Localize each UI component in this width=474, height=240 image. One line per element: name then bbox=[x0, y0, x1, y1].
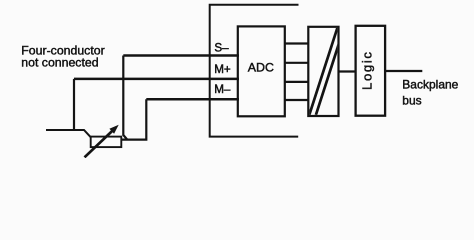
svg-text:ADC: ADC bbox=[248, 60, 274, 74]
svg-text:Logic: Logic bbox=[359, 50, 374, 90]
svg-text:M–: M– bbox=[214, 83, 231, 96]
svg-text:Backplane: Backplane bbox=[402, 77, 458, 91]
svg-text:bus: bus bbox=[402, 94, 421, 108]
svg-text:M+: M+ bbox=[214, 63, 231, 76]
svg-text:not connected: not connected bbox=[21, 56, 98, 70]
svg-text:S–: S– bbox=[214, 41, 229, 54]
